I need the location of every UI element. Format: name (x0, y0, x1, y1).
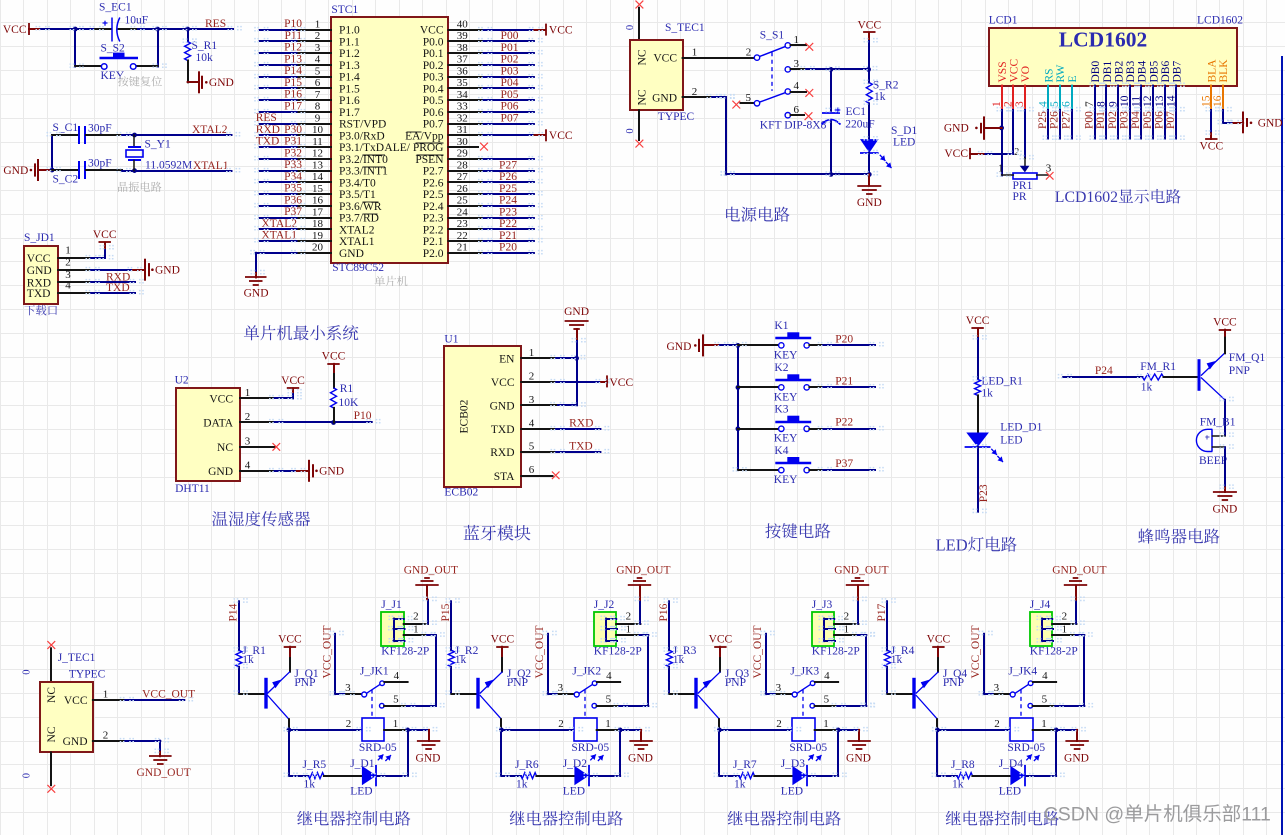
svg-text:4: 4 (793, 80, 799, 92)
svg-text:2: 2 (994, 718, 1000, 730)
svg-text:2: 2 (103, 729, 109, 741)
svg-text:5: 5 (746, 92, 752, 104)
relay coil SRD-05 (501, 729, 574, 731)
svg-text:LED: LED (350, 786, 372, 798)
svg-text:5: 5 (606, 693, 612, 705)
svg-text:TXD: TXD (491, 424, 515, 436)
svg-text:P2.7: P2.7 (423, 166, 444, 178)
svg-text:1: 1 (626, 623, 632, 635)
lcd data bus wires (1047, 110, 1049, 139)
comment 晶振电路 (118, 182, 128, 192)
svg-text:1k: 1k (516, 779, 528, 791)
svg-text:J_J2: J_J2 (594, 599, 615, 611)
power port VCC (J_Q1) (284, 646, 296, 648)
svg-text:S_S2: S_S2 (101, 43, 126, 55)
resistor R1 10K (333, 374, 335, 388)
svg-text:VO: VO (1020, 66, 1032, 83)
svg-text:E: E (1067, 75, 1079, 82)
svg-text:XTAL1: XTAL1 (193, 160, 229, 172)
svg-text:TXD: TXD (569, 441, 593, 453)
capacitor S_C2 30pF (52, 169, 77, 171)
svg-text:NC: NC (217, 442, 233, 454)
svg-text:P0.7: P0.7 (423, 119, 444, 131)
svg-text:8: 8 (315, 101, 321, 113)
svg-text:TYPEC: TYPEC (658, 111, 695, 123)
svg-text:J_JK2: J_JK2 (572, 665, 601, 677)
svg-text:P15: P15 (284, 77, 302, 89)
power port VCC (download) (99, 241, 111, 243)
svg-text:EC1: EC1 (846, 106, 867, 118)
wire VCC_OUT rail (765, 634, 767, 694)
svg-text:PNP: PNP (294, 677, 315, 689)
svg-text:P00: P00 (1084, 111, 1096, 129)
svg-text:PNP: PNP (943, 677, 964, 689)
mcu left pin wires (297, 29, 332, 31)
wire LED_D1 to P23 (977, 447, 979, 512)
capacitor EC1 220uF rail (830, 69, 832, 110)
wire XTAL1 (122, 170, 232, 172)
svg-text:2: 2 (626, 610, 632, 622)
title 单片机最小系统 (244, 325, 259, 340)
mcu P0 bus wires (449, 40, 484, 42)
svg-text:P34: P34 (284, 171, 302, 183)
svg-text:TXD: TXD (256, 136, 280, 148)
svg-text:3: 3 (345, 682, 351, 694)
svg-text:P0.1: P0.1 (423, 48, 444, 60)
svg-text:P00: P00 (501, 30, 519, 42)
svg-text:21: 21 (457, 242, 468, 254)
wire left leg to led row (936, 730, 938, 776)
pin 4 wire TXD (58, 292, 91, 294)
wire VCC_OUT rail (334, 634, 336, 694)
svg-text:VCC: VCC (1213, 317, 1237, 329)
svg-text:36: 36 (457, 65, 469, 77)
wire collector to relay node (500, 719, 502, 730)
push button S_S2 KEY (74, 29, 76, 67)
wire LED_R1 to LED_D1 (977, 395, 979, 432)
wire P17 down (886, 601, 888, 650)
push button K4 KEY (738, 469, 779, 471)
svg-text:J_D4: J_D4 (999, 758, 1024, 770)
wire left leg to led row (500, 730, 502, 776)
ground GND (relay J_J4) (1076, 730, 1078, 741)
push button K2 KEY (738, 386, 779, 388)
ground GND (relay J_J3) (858, 730, 860, 741)
svg-text:RXD: RXD (490, 447, 514, 459)
led J_D4 (1010, 766, 1025, 785)
relay coil SRD-05 (719, 729, 792, 731)
resistor J_R5 1k (308, 773, 324, 779)
lcd pin15 BLA wire to VCC (1210, 110, 1212, 133)
led LED_D1 (966, 433, 989, 448)
wire node to GND (J_J2) (620, 729, 641, 731)
wire right leg to led row (407, 730, 409, 776)
mcu overlines on active-low pins (407, 131, 422, 133)
title 蜂鸣器电路 (1138, 528, 1154, 543)
wire K1 to P20 (823, 344, 875, 346)
svg-text:1: 1 (823, 718, 829, 730)
mcu pin30 no-connect (449, 146, 479, 148)
svg-text:GND: GND (155, 265, 180, 277)
svg-text:P12: P12 (284, 42, 302, 54)
mcu P2 bus wires (449, 170, 484, 172)
push button K3 KEY (738, 428, 779, 430)
ecb02 pin6 STA no-erc (521, 475, 552, 477)
svg-text:VCC_OUT: VCC_OUT (534, 625, 546, 678)
svg-text:5: 5 (824, 693, 830, 705)
svg-text:VCC: VCC (927, 634, 951, 646)
wire P14 down (238, 601, 240, 650)
svg-text:VCC: VCC (3, 24, 27, 36)
svg-text:GND: GND (63, 736, 88, 748)
svg-text:4: 4 (315, 54, 321, 66)
svg-text:RST/VPD: RST/VPD (339, 119, 386, 131)
wire top to J_TEC1 (50, 648, 52, 681)
svg-text:11.0592M: 11.0592M (145, 160, 192, 172)
svg-text:P23: P23 (499, 206, 517, 218)
svg-text:10k: 10k (196, 52, 214, 64)
svg-text:P21: P21 (835, 375, 853, 387)
svg-text:BLA: BLA (1207, 59, 1219, 83)
svg-text:2: 2 (346, 718, 352, 730)
svg-text:4: 4 (824, 670, 830, 682)
ecb02 pin4 TXD wire (521, 428, 556, 430)
svg-text:5: 5 (1042, 693, 1048, 705)
crystal S_Y1 11.0592M (133, 135, 135, 147)
power port VCC (buzzer) (1219, 329, 1231, 331)
wire S_R2 to LED (868, 103, 870, 139)
svg-text:PNP: PNP (1229, 365, 1250, 377)
svg-text:P37: P37 (284, 206, 302, 218)
svg-text:J_J1: J_J1 (381, 599, 402, 611)
svg-text:LED_R1: LED_R1 (981, 376, 1023, 388)
resistor J_R6 1k (521, 773, 537, 779)
svg-text:0: 0 (22, 773, 33, 778)
svg-text:DB6: DB6 (1160, 61, 1172, 83)
wire right leg to led row (837, 730, 839, 776)
svg-text:5: 5 (315, 65, 321, 77)
svg-text:LED: LED (936, 535, 968, 554)
svg-text:GND: GND (628, 753, 653, 765)
wire J_R8 to J_D4 (972, 775, 1010, 777)
wire collector to relay node (288, 719, 290, 730)
svg-text:1k: 1k (981, 387, 993, 399)
svg-text:P3.1/TxD: P3.1/TxD (339, 142, 384, 154)
svg-text:S_JD1: S_JD1 (24, 232, 55, 244)
relay gang dashed link (802, 690, 804, 719)
svg-text:LED: LED (1000, 435, 1022, 447)
svg-text:1: 1 (315, 18, 321, 30)
svg-text:PR: PR (1013, 191, 1027, 203)
lcd pin2 VCC wire (1012, 110, 1014, 154)
svg-text:P0.4: P0.4 (423, 83, 444, 95)
svg-text:P06: P06 (1154, 111, 1166, 129)
svg-text:P14: P14 (228, 603, 240, 621)
svg-text:6: 6 (1061, 101, 1073, 107)
ground GND (relay J_J2) (640, 730, 642, 741)
ground GND_OUT (J_J1) (426, 585, 428, 599)
svg-text:P37: P37 (835, 458, 853, 470)
wire gnd rail down (725, 97, 727, 174)
svg-text:40: 40 (457, 18, 469, 30)
svg-text:KEY: KEY (774, 474, 798, 486)
power port VCC (reset) (28, 23, 30, 35)
svg-text:2: 2 (413, 610, 419, 622)
power port VCC (pin40) (545, 24, 547, 36)
svg-text:3: 3 (245, 436, 251, 448)
resistor J_R7 1k (739, 773, 755, 779)
svg-text:U1: U1 (444, 334, 458, 346)
svg-text:GND: GND (1064, 753, 1089, 765)
resistor J_R4 1k (884, 650, 890, 667)
svg-text:S_S1: S_S1 (760, 29, 785, 41)
svg-text:GND: GND (652, 92, 677, 104)
svg-text:J_D1: J_D1 (350, 758, 375, 770)
svg-text:VCC: VCC (549, 130, 573, 142)
ground GND (mcu) (255, 273, 257, 278)
svg-text:GND: GND (244, 288, 269, 300)
wire K4 to P37 (823, 469, 875, 471)
lcd pin3 VO wire to wiper (1024, 110, 1026, 158)
svg-text:VCC: VCC (322, 351, 346, 363)
svg-text:VCC: VCC (653, 53, 677, 65)
svg-text:P24: P24 (499, 195, 517, 207)
svg-text:4: 4 (245, 459, 251, 471)
title 继电器控制电路 (946, 811, 961, 826)
svg-text:EN: EN (499, 354, 515, 366)
svg-text:P36: P36 (284, 194, 302, 206)
svg-text:ALE/ PROG: ALE/ PROG (384, 142, 443, 154)
svg-text:XTAL2: XTAL2 (192, 124, 228, 136)
svg-text:4: 4 (1042, 670, 1048, 682)
svg-text:1k: 1k (952, 779, 964, 791)
svg-text:P23: P23 (978, 484, 990, 502)
svg-text:LCD1602: LCD1602 (1197, 15, 1243, 27)
capacitor S_C1 30pF (52, 134, 77, 136)
svg-text:P1.4: P1.4 (339, 72, 360, 84)
wire bottom of S_TEC1 (638, 110, 640, 140)
mcu STC89C52 body (331, 17, 448, 263)
transistor J_Q4 PNP (912, 678, 915, 709)
wire K3 to P22 (823, 428, 875, 430)
svg-text:KEY: KEY (101, 70, 125, 82)
pin 3 wire RXD (58, 281, 91, 283)
svg-text:4: 4 (394, 670, 400, 682)
dht11 pin2 DATA wire (240, 421, 275, 423)
svg-text:P20: P20 (835, 333, 853, 345)
wire collector to buzzer (1224, 400, 1226, 436)
svg-text:BLK: BLK (1218, 59, 1230, 83)
svg-text:0: 0 (22, 670, 33, 675)
svg-text:P3.4/T0: P3.4/T0 (339, 177, 376, 189)
svg-text:P26: P26 (499, 171, 517, 183)
dht11 pin3 NC no-erc (240, 446, 275, 448)
title 继电器控制电路 (297, 811, 312, 826)
svg-text:VCC: VCC (278, 634, 302, 646)
wire right leg to led row (1055, 730, 1057, 776)
wire VCC_OUT rail (547, 634, 549, 694)
mcu pin20 GND wire (297, 252, 332, 254)
transistor J_Q1 PNP (264, 678, 267, 709)
svg-text:37: 37 (457, 54, 469, 66)
svg-text:VCC: VCC (1199, 140, 1223, 152)
wire bottom rail (726, 173, 869, 175)
svg-text:20: 20 (312, 242, 324, 254)
svg-text:RXD: RXD (569, 417, 593, 429)
no-erc X top (S_TEC1) (636, 1, 644, 9)
ground GND_OUT (J_J3) (857, 585, 859, 599)
node junction xtal2 (132, 133, 137, 138)
resistor LED_R1 1k (975, 379, 981, 395)
svg-text:VCC: VCC (281, 375, 305, 387)
svg-text:LED: LED (563, 786, 585, 798)
svg-text:K2: K2 (774, 362, 788, 374)
svg-text:RES: RES (256, 112, 277, 124)
svg-text:10K: 10K (339, 397, 360, 409)
svg-text:P3.7/RD: P3.7/RD (339, 213, 379, 225)
transistor J_Q3 PNP (694, 678, 697, 709)
svg-text:DB3: DB3 (1125, 61, 1137, 83)
ecb02 pin5 RXD wire (521, 451, 556, 453)
svg-text:P17: P17 (284, 100, 302, 112)
svg-text:P1.7: P1.7 (339, 107, 360, 119)
svg-text:DATA: DATA (203, 418, 233, 430)
svg-text:S_Y1: S_Y1 (145, 138, 171, 150)
ground GND_OUT (j_tec1) (159, 752, 161, 757)
svg-text:25: 25 (457, 195, 469, 207)
svg-text:P24: P24 (1095, 365, 1113, 377)
comment 单片机 (375, 276, 385, 286)
svg-text:K4: K4 (774, 445, 788, 457)
svg-text:GND: GND (857, 197, 882, 209)
wire VCC_OUT rail (983, 634, 985, 694)
wire P24 to FM_R1 (1063, 376, 1142, 378)
resistor FM_R1 1k (1142, 374, 1163, 380)
svg-text:KF128-2P: KF128-2P (381, 646, 429, 658)
svg-text:TXD: TXD (27, 288, 51, 300)
svg-text:DHT11: DHT11 (175, 483, 210, 495)
mcu pin40 VCC wire (449, 29, 484, 31)
svg-text:LED_D1: LED_D1 (1000, 422, 1042, 434)
svg-text:P2.6: P2.6 (423, 177, 444, 189)
svg-text:GND: GND (416, 753, 441, 765)
svg-text:KF128-2P: KF128-2P (594, 646, 642, 658)
svg-text:RES: RES (205, 18, 226, 30)
svg-text:VCC: VCC (709, 634, 733, 646)
svg-text:GND: GND (339, 248, 364, 260)
svg-text:P0.3: P0.3 (423, 72, 444, 84)
svg-text:1k: 1k (304, 779, 316, 791)
svg-text:2: 2 (844, 610, 850, 622)
svg-text:4: 4 (606, 670, 612, 682)
svg-text:P27: P27 (499, 159, 517, 171)
svg-text:VCC: VCC (93, 229, 117, 241)
wire P15 down (450, 601, 452, 650)
no-erc X PR1 pin3 (1046, 172, 1054, 180)
power port VCC (J_Q3) (714, 646, 726, 648)
resistor S_R2 1k (868, 69, 870, 82)
svg-text:1: 1 (393, 718, 399, 730)
ground GND (reset) (188, 81, 199, 83)
ground GND (crystal) (39, 169, 53, 171)
svg-text:GND: GND (319, 466, 344, 478)
svg-text:P1.3: P1.3 (339, 60, 360, 72)
svg-text:0: 0 (625, 128, 636, 133)
svg-text:TXD: TXD (106, 282, 130, 294)
svg-text:LCD1: LCD1 (989, 15, 1018, 27)
svg-text:29: 29 (457, 148, 469, 160)
svg-text:NC: NC (46, 687, 58, 703)
svg-text:GND: GND (564, 306, 589, 318)
lcd pin1 VSS wire to gnd (1001, 110, 1003, 175)
svg-text:GND_OUT: GND_OUT (404, 564, 458, 576)
svg-text:P06: P06 (501, 101, 519, 113)
capacitor S_EC1 (95, 28, 111, 30)
svg-text:RS: RS (1044, 68, 1056, 82)
wire bottom of J_TEC1 (50, 753, 52, 786)
svg-text:P0.2: P0.2 (423, 60, 444, 72)
node junction xtal1 (132, 168, 137, 173)
svg-text:PSEN: PSEN (415, 154, 444, 166)
no-erc X bottom (S_TEC1) (636, 140, 644, 148)
svg-text:VCC_OUT: VCC_OUT (970, 625, 982, 678)
svg-text:VCC: VCC (610, 377, 634, 389)
ground GND_OUT (J_J2) (639, 585, 641, 599)
svg-text:S_D1: S_D1 (891, 125, 917, 137)
svg-text:J_D3: J_D3 (781, 758, 806, 770)
wire buzzer to gnd (1224, 447, 1226, 487)
svg-text:17: 17 (312, 206, 324, 218)
svg-text:P27: P27 (1060, 111, 1072, 129)
power port VCC (dht11) (287, 387, 299, 389)
ecb02 pin2 VCC wire (521, 381, 556, 383)
svg-text:10uF: 10uF (125, 15, 149, 27)
led J_D3 (792, 766, 807, 785)
svg-text:P11: P11 (285, 30, 303, 42)
svg-text:PNP: PNP (725, 677, 746, 689)
wire collector to relay node (936, 719, 938, 730)
svg-text:P3.0/RxD: P3.0/RxD (339, 130, 385, 142)
svg-text:P0.0: P0.0 (423, 37, 444, 49)
switch S_S1 pole 2 (732, 101, 740, 109)
node junction RES (185, 27, 190, 32)
svg-text:U2: U2 (175, 375, 189, 387)
svg-text:P04: P04 (501, 77, 519, 89)
svg-text:DB5: DB5 (1148, 61, 1160, 83)
svg-text:0: 0 (625, 25, 636, 30)
wire right leg to led row (619, 730, 621, 776)
svg-text:P03: P03 (1119, 111, 1131, 129)
svg-text:VCC: VCC (491, 634, 515, 646)
ground GND (download) (133, 269, 145, 271)
power port VCC (ecb02) (601, 381, 607, 383)
svg-text:FM_R1: FM_R1 (1140, 361, 1176, 373)
svg-text:STC89C52: STC89C52 (332, 262, 384, 274)
svg-text:S_R2: S_R2 (873, 79, 899, 91)
resistor J_R3 1k (666, 650, 672, 667)
led J_D2 (574, 766, 589, 785)
svg-text:VCC: VCC (944, 148, 968, 160)
svg-text:24: 24 (457, 206, 469, 218)
ground GND (lcd BLK) (1233, 122, 1243, 124)
svg-text:J_TEC1: J_TEC1 (58, 652, 96, 664)
svg-text:DB2: DB2 (1113, 61, 1125, 83)
wire crystal left rail (51, 135, 53, 170)
svg-text:BEEP: BEEP (1199, 455, 1227, 467)
svg-text:VCC: VCC (857, 19, 881, 31)
svg-text:DB4: DB4 (1137, 61, 1149, 83)
svg-text:S_EC1: S_EC1 (99, 2, 132, 14)
